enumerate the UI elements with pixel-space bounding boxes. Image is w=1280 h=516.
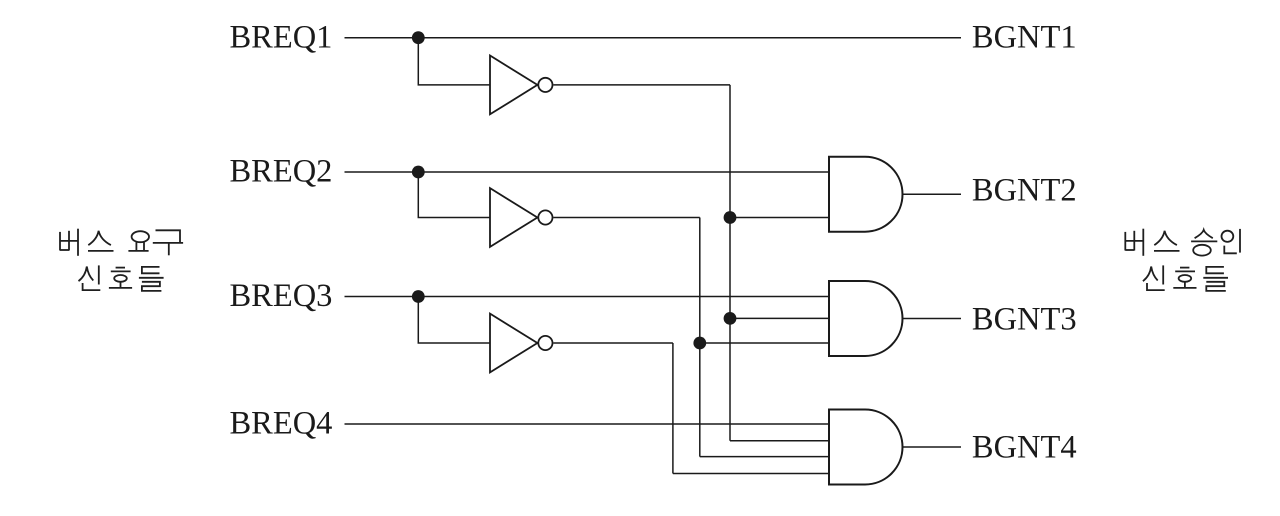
inverter U2 xyxy=(490,188,553,247)
wire net /BREQ1 to AND U6 input 2 xyxy=(730,317,829,319)
svg-text:BGNT4: BGNT4 xyxy=(972,430,1077,466)
wire net /BREQ2 to AND U6 input 3 xyxy=(700,342,829,344)
wire AND U7 output to BGNT4 xyxy=(903,446,962,448)
and-gate U6 (BGNT3) xyxy=(829,281,903,356)
wire net /BREQ3 vertical xyxy=(672,343,674,474)
node BREQ3 branch junction xyxy=(412,290,425,303)
wire BREQ3 branch to inverter U3 input xyxy=(418,297,490,344)
svg-text:BREQ1: BREQ1 xyxy=(230,19,333,55)
label korean right line1: 버스 승인 xyxy=(1125,229,1240,256)
and-gate U5 (BGNT2) xyxy=(829,157,903,232)
node /BREQ1 to U6 junction xyxy=(724,312,737,325)
wire inverter U3 output xyxy=(553,342,673,344)
inverter U3 xyxy=(490,314,553,373)
wire net /BREQ1 to AND U7 input 2 xyxy=(730,440,829,442)
node /BREQ2 to U6 junction xyxy=(693,337,706,350)
node /BREQ1 to U5 junction xyxy=(724,211,737,224)
wire BREQ2 to AND U5 input 1 xyxy=(345,171,830,173)
label korean right line2: 신호들 xyxy=(1143,265,1228,291)
wire AND U5 output to BGNT2 xyxy=(903,193,962,195)
svg-text:BGNT1: BGNT1 xyxy=(972,20,1077,56)
wire net /BREQ2 to AND U7 input 3 xyxy=(700,456,829,458)
label korean left line2: 신호들 xyxy=(79,265,164,291)
svg-text:BREQ4: BREQ4 xyxy=(230,406,333,442)
node BREQ2 branch junction xyxy=(412,166,425,179)
wire inverter U2 output xyxy=(553,217,700,219)
svg-text:BGNT3: BGNT3 xyxy=(972,302,1077,338)
node BREQ1 branch junction xyxy=(412,31,425,44)
and-gate U7 (BGNT4) xyxy=(829,410,903,485)
svg-text:BGNT2: BGNT2 xyxy=(972,172,1077,208)
wire net /BREQ1 vertical xyxy=(729,85,731,441)
label korean left line1: 버스 요구 xyxy=(60,229,183,256)
wire AND U6 output to BGNT3 xyxy=(903,318,962,320)
wire BREQ1 to BGNT1 xyxy=(345,37,962,39)
svg-text:BREQ2: BREQ2 xyxy=(230,154,333,190)
wire net /BREQ3 to AND U7 input 4 xyxy=(673,473,829,475)
wire BREQ4 to AND U7 input 1 xyxy=(345,423,830,425)
wire BREQ3 to AND U6 input 1 xyxy=(345,296,830,298)
wire BREQ2 branch to inverter U2 input xyxy=(418,172,490,218)
wire inverter U1 output xyxy=(553,84,730,86)
inverter U1 xyxy=(490,56,553,115)
wire net /BREQ1 to AND U5 input 2 xyxy=(730,217,829,219)
wire net /BREQ2 vertical xyxy=(699,218,701,457)
wire BREQ1 branch to inverter U1 input xyxy=(418,38,490,85)
svg-text:BREQ3: BREQ3 xyxy=(230,278,333,314)
